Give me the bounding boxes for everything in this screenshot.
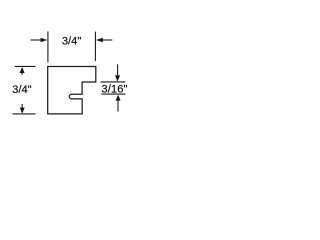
moulding profile outline [48, 67, 96, 114]
right dimension: upper tick [101, 81, 126, 83]
top dimension: left extension line [47, 31, 49, 62]
top dimension: right tail [102, 39, 112, 41]
left dimension: upper stub [21, 72, 23, 75]
right dimension: upper stub [117, 64, 119, 76]
left dimension: top tick [15, 65, 36, 67]
left dimension: down-pointing arrowhead [20, 108, 25, 114]
right dimension: lower stub [117, 100, 119, 112]
svg-text:3/16": 3/16" [101, 84, 127, 96]
right dimension: down-pointing arrowhead [115, 75, 120, 81]
top dimension: left-pointing arrowhead [96, 38, 103, 43]
svg-text:3/4": 3/4" [12, 84, 32, 96]
right dimension: up-pointing arrowhead [116, 95, 121, 101]
svg-text:3/4": 3/4" [62, 35, 82, 47]
left dimension: bottom tick [13, 113, 36, 115]
top dimension: right extension line [94, 32, 96, 61]
right dimension: lower tick [101, 93, 125, 95]
left dimension: lower stub [21, 104, 23, 110]
top dimension: right-pointing arrowhead [41, 38, 48, 43]
left dimension: up-pointing arrowhead [20, 67, 25, 73]
top dimension: left tail [31, 39, 41, 41]
